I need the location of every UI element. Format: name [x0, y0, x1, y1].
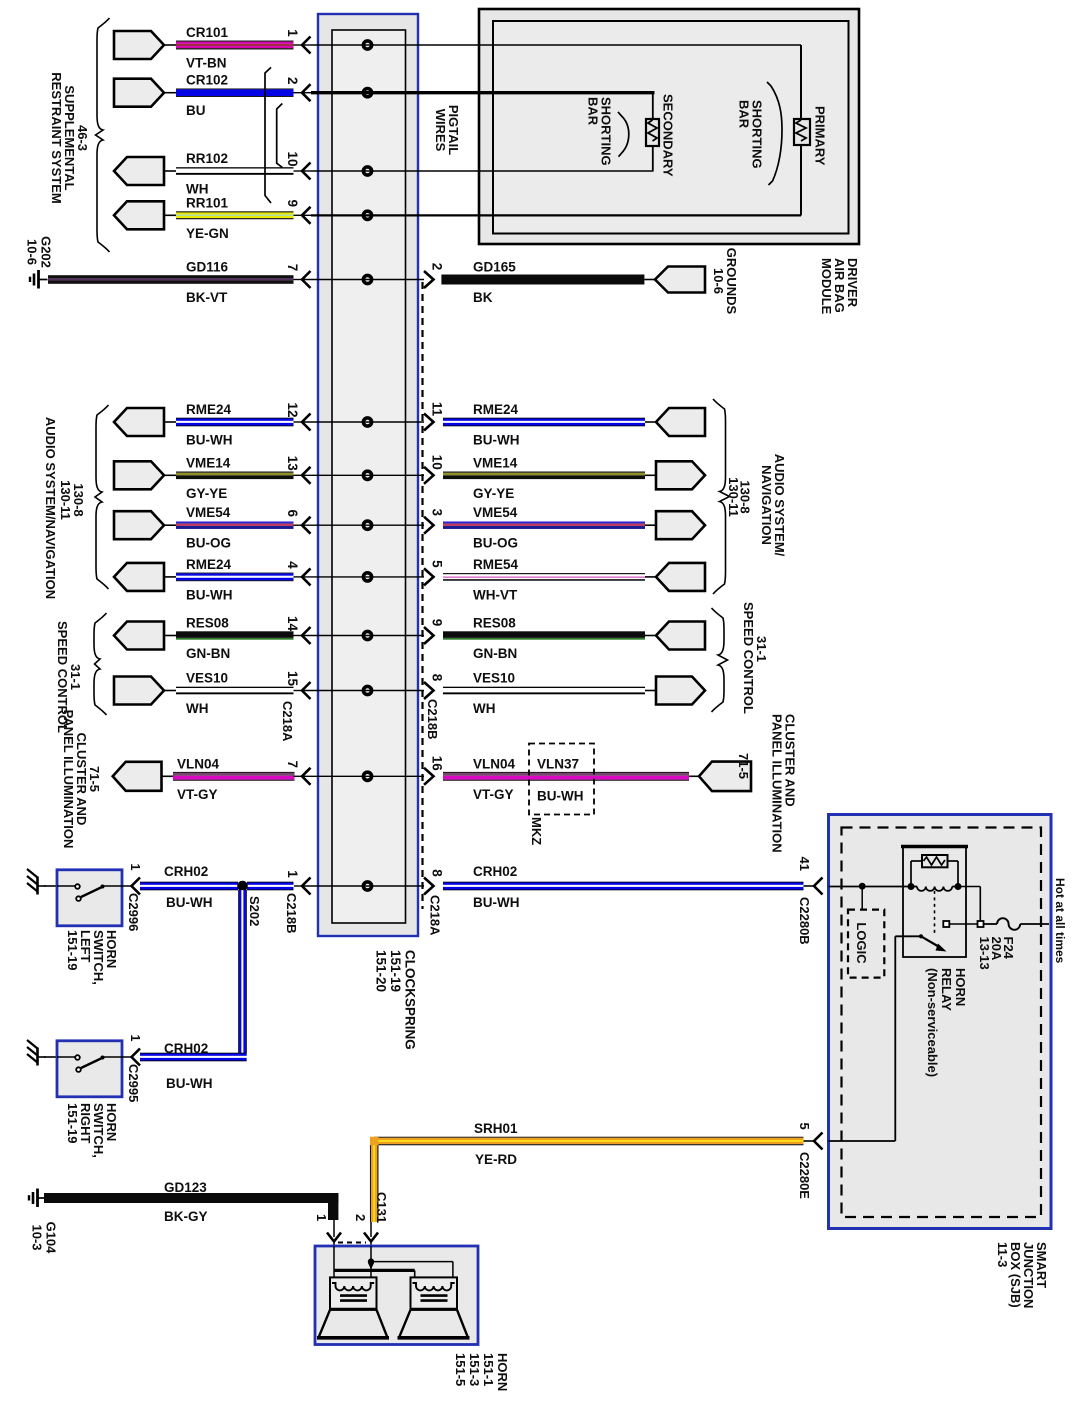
svg-text:C218B: C218B — [284, 893, 299, 933]
svg-text:6: 6 — [285, 509, 300, 517]
svg-text:GN-BN: GN-BN — [186, 646, 230, 661]
svg-text:CRH02: CRH02 — [164, 1041, 208, 1056]
svg-text:RME24: RME24 — [186, 557, 232, 572]
contact square left — [943, 921, 949, 927]
wire row VME54 pin 6 — [114, 505, 445, 551]
wire row CRH02 pin 1 — [285, 869, 445, 894]
svg-text:1: 1 — [314, 1214, 329, 1221]
VLN37 MKZ dashed box — [529, 744, 594, 815]
svg-text:7: 7 — [285, 264, 300, 272]
svg-text:GD165: GD165 — [473, 260, 516, 275]
primary squib loop wires — [311, 44, 801, 46]
chevron SJB pin 5 — [814, 1133, 823, 1150]
wire to LOGIC — [861, 887, 863, 910]
svg-text:C2995: C2995 — [126, 1064, 141, 1102]
svg-text:C218B: C218B — [425, 699, 440, 739]
secondary squib loop wires — [311, 91, 655, 94]
svg-text:BU-WH: BU-WH — [186, 433, 233, 448]
relay switch blade — [919, 934, 923, 938]
wire CRH02 from left switch — [140, 881, 238, 884]
svg-text:1: 1 — [128, 864, 142, 871]
primary shorting bar resistor — [794, 119, 810, 145]
C131 dashed boundary — [338, 1242, 366, 1244]
svg-text:SPEED CONTROL: SPEED CONTROL — [741, 602, 756, 714]
svg-text:BU: BU — [186, 103, 206, 118]
svg-text:WH: WH — [186, 701, 209, 716]
svg-text:2: 2 — [285, 77, 300, 85]
svg-text:41: 41 — [797, 857, 812, 871]
svg-text:CR101: CR101 — [186, 25, 229, 40]
svg-text:10: 10 — [430, 455, 445, 470]
wire row GD116 pin 7 — [48, 260, 445, 306]
stub at SJB pin 41 — [804, 885, 815, 887]
primary shorting bar brace — [767, 82, 782, 185]
svg-text:SECONDARY: SECONDARY — [661, 94, 676, 177]
wire row RR102 pin 10 — [114, 151, 372, 197]
svg-text:VT-GY: VT-GY — [473, 787, 514, 802]
wire row RME24 pin 12 — [114, 402, 445, 448]
svg-text:BU-WH: BU-WH — [473, 433, 520, 448]
connector C218B dashed boundary line — [421, 282, 423, 909]
driver air bag module inner box — [493, 21, 849, 234]
svg-text:RES08: RES08 — [186, 616, 229, 631]
svg-text:VME14: VME14 — [473, 455, 518, 470]
svg-text:130-8130-11: 130-8130-11 — [58, 480, 86, 520]
svg-text:G20210-6: G20210-6 — [25, 236, 54, 268]
svg-text:BU-WH: BU-WH — [166, 895, 213, 910]
svg-text:RME54: RME54 — [473, 557, 519, 572]
svg-text:VT-BN: VT-BN — [186, 56, 227, 71]
svg-text:2: 2 — [353, 1214, 368, 1221]
svg-text:C218A: C218A — [428, 895, 443, 936]
svg-text:SRH01: SRH01 — [474, 1121, 518, 1136]
junction to logic — [859, 883, 866, 890]
svg-text:9: 9 — [285, 200, 300, 208]
svg-text:VME54: VME54 — [473, 505, 518, 520]
svg-text:S202: S202 — [247, 896, 262, 926]
clockspring inner box — [332, 30, 406, 923]
horn bus bar — [334, 1269, 415, 1272]
svg-text:RME24: RME24 — [473, 402, 519, 417]
svg-text:VT-GY: VT-GY — [177, 787, 218, 802]
fuse F24 — [984, 923, 997, 925]
SJB dashed inner boundary — [842, 828, 1042, 1218]
SRH01 corner patch — [370, 1137, 379, 1146]
svg-text:BU-WH: BU-WH — [186, 587, 233, 602]
clockspring outer box — [318, 14, 418, 936]
secondary shorting bar resistor — [646, 119, 659, 146]
jumper to right horn — [371, 1261, 453, 1263]
SJB vertical wire to pin 5 — [894, 936, 896, 1141]
relay box thick top edge — [901, 845, 968, 849]
SJB wire from pin 41 to relay — [829, 886, 912, 888]
svg-text:AUDIO SYSTEM/NAVIGATION: AUDIO SYSTEM/NAVIGATION — [43, 417, 58, 599]
wire row RME24 pin 4 — [114, 557, 445, 603]
contact link wire — [949, 923, 977, 925]
svg-text:WH: WH — [473, 701, 496, 716]
svg-text:5: 5 — [430, 560, 445, 568]
svg-text:4: 4 — [285, 561, 300, 569]
wire GD123 — [44, 1193, 338, 1203]
SRH01 lead to pin 2 — [370, 1222, 372, 1237]
svg-text:PRIMARY: PRIMARY — [813, 106, 828, 166]
relay resistor — [922, 855, 948, 867]
smart junction box — [829, 815, 1052, 1229]
wire VME54 right segment — [443, 505, 705, 551]
svg-text:MKZ: MKZ — [529, 817, 544, 845]
svg-text:WH-VT: WH-VT — [473, 587, 518, 602]
relay actuation dashed line — [934, 891, 936, 933]
wire row VLN04 pin 7 — [113, 756, 445, 802]
svg-text:BU-WH: BU-WH — [473, 895, 520, 910]
wire row CR102 pin 2 — [114, 73, 372, 119]
wire SRH01 vertical — [370, 1145, 371, 1222]
horn switch right C2995 — [27, 1035, 142, 1158]
feed to contact — [958, 886, 980, 888]
svg-text:GD116: GD116 — [186, 260, 229, 275]
stub at SJB pin 5 — [804, 1140, 815, 1142]
wire row VME14 pin 13 — [114, 455, 445, 501]
resistor parallel stubs — [911, 860, 922, 862]
svg-text:BK-GY: BK-GY — [164, 1209, 208, 1224]
pigtail group bracket B — [277, 104, 283, 168]
audio system brace right — [713, 399, 730, 594]
LOGIC dashed box — [848, 910, 884, 978]
wire CRH02 from right switch — [140, 1052, 247, 1055]
wire CRH02 to SJB — [443, 881, 804, 884]
svg-text:BK-VT: BK-VT — [186, 290, 228, 305]
svg-text:VES10: VES10 — [186, 671, 228, 686]
relay coil — [917, 887, 952, 891]
horn pin 1 lead — [333, 1241, 335, 1269]
svg-text:12: 12 — [285, 402, 300, 417]
svg-text:GY-YE: GY-YE — [473, 486, 514, 501]
svg-text:CRH02: CRH02 — [164, 864, 208, 879]
wire VES10 right segment — [443, 671, 705, 717]
svg-text:130-8130-11: 130-8130-11 — [726, 477, 753, 517]
svg-text:71-5: 71-5 — [736, 753, 751, 779]
svg-text:VLN37: VLN37 — [537, 757, 579, 772]
svg-text:9: 9 — [430, 619, 445, 627]
wire VME14 right segment — [443, 455, 705, 501]
svg-text:1: 1 — [285, 29, 300, 37]
svg-text:GN-BN: GN-BN — [473, 646, 517, 661]
svg-text:GD123: GD123 — [164, 1180, 207, 1195]
svg-text:11: 11 — [430, 402, 445, 417]
ground G104 — [36, 1189, 39, 1208]
svg-text:7: 7 — [285, 761, 300, 769]
wire RME24 right segment — [443, 402, 705, 448]
svg-text:BK: BK — [473, 290, 493, 305]
audio system brace left — [95, 405, 109, 589]
wire GD165 right segment — [441, 260, 705, 306]
leads into left horn — [333, 1270, 335, 1284]
svg-text:16: 16 — [430, 756, 445, 772]
svg-text:15: 15 — [285, 671, 300, 687]
svg-text:YE-GN: YE-GN — [186, 226, 229, 241]
horn speaker right — [411, 1277, 458, 1309]
svg-text:1: 1 — [285, 870, 300, 878]
svg-text:13: 13 — [285, 456, 300, 472]
svg-text:Hot at all times: Hot at all times — [1053, 878, 1067, 964]
wire row CR101 pin 1 — [114, 25, 372, 71]
wire row RES08 pin 14 — [114, 616, 445, 662]
horn junction dot — [368, 1258, 374, 1264]
wire row RR101 pin 9 — [114, 195, 372, 241]
svg-text:RR101: RR101 — [186, 195, 229, 210]
svg-text:C218A: C218A — [280, 701, 295, 742]
svg-text:5: 5 — [797, 1123, 812, 1130]
svg-text:GY-YE: GY-YE — [186, 486, 227, 501]
svg-text:BU-OG: BU-OG — [186, 536, 231, 551]
wire GD123 vertical — [328, 1193, 338, 1220]
arrow into bus bar — [368, 1263, 374, 1270]
svg-text:C131: C131 — [374, 1192, 389, 1223]
wire RME54 right segment — [443, 557, 705, 603]
svg-text:VLN04: VLN04 — [473, 756, 516, 771]
svg-text:VME54: VME54 — [186, 505, 231, 520]
supplemental restraint system brace — [96, 18, 110, 252]
svg-text:8: 8 — [430, 869, 445, 877]
ground G202 — [37, 270, 40, 289]
svg-text:G10410-3: G10410-3 — [30, 1222, 59, 1255]
horn speaker left — [330, 1277, 377, 1309]
stub to clockspring pin 1 — [294, 885, 302, 887]
svg-text:2: 2 — [430, 263, 445, 271]
SJB wire to pin 5 — [829, 1140, 896, 1142]
svg-text:1: 1 — [128, 1035, 142, 1042]
svg-text:RME24: RME24 — [186, 402, 232, 417]
svg-text:RR102: RR102 — [186, 151, 228, 166]
wire row VES10 pin 15 — [114, 671, 445, 717]
svg-text:DRIVERAIR BAGMODULE: DRIVERAIR BAGMODULE — [819, 258, 860, 315]
svg-text:C2280B: C2280B — [797, 897, 812, 945]
chevron SJB pin 41 — [814, 878, 823, 895]
svg-text:CRH02: CRH02 — [473, 864, 517, 879]
driver air bag module outer box — [479, 9, 859, 244]
horn box — [315, 1246, 478, 1345]
svg-text:CR102: CR102 — [186, 73, 228, 88]
svg-text:BU-WH: BU-WH — [166, 1076, 213, 1091]
svg-text:VME14: VME14 — [186, 455, 231, 470]
speed control brace left — [94, 613, 107, 715]
svg-text:8: 8 — [430, 674, 445, 682]
svg-text:14: 14 — [285, 616, 300, 632]
svg-text:VES10: VES10 — [473, 671, 515, 686]
speed control brace right — [712, 608, 728, 712]
svg-text:WH: WH — [186, 182, 209, 197]
blade wire — [895, 935, 921, 937]
svg-text:10: 10 — [285, 151, 300, 166]
svg-text:VLN04: VLN04 — [177, 756, 220, 771]
svg-text:BU-OG: BU-OG — [473, 536, 518, 551]
svg-text:PIGTAILWIRES: PIGTAILWIRES — [433, 105, 461, 155]
horn switch left C2996 — [27, 864, 142, 985]
relay coil junction dots — [908, 883, 915, 890]
svg-text:BU-WH: BU-WH — [537, 789, 584, 804]
svg-text:LOGIC: LOGIC — [854, 922, 869, 964]
horn relay box — [903, 846, 966, 957]
svg-text:RES08: RES08 — [473, 616, 516, 631]
svg-text:3: 3 — [430, 508, 445, 516]
coil lead stubs — [911, 886, 917, 888]
wire RES08 right segment — [443, 616, 705, 662]
wire SRH01 horizontal — [374, 1137, 804, 1138]
wire VLN04 right segment — [443, 756, 751, 802]
connector C131 pin chevrons — [327, 1233, 341, 1242]
svg-text:YE-RD: YE-RD — [475, 1152, 517, 1167]
svg-text:HORN151-1151-3151-5: HORN151-1151-3151-5 — [453, 1353, 510, 1391]
splice S202 — [237, 881, 248, 892]
wire CRH02 vertical drop — [237, 890, 240, 1053]
horn pin 2 lead — [370, 1241, 372, 1260]
svg-text:AUDIO SYSTEM/NAVIGATION: AUDIO SYSTEM/NAVIGATION — [759, 454, 787, 557]
svg-text:C2280E: C2280E — [797, 1152, 812, 1199]
svg-text:C2996: C2996 — [126, 893, 141, 931]
contact square right — [978, 921, 984, 927]
pigtail group bracket A — [265, 67, 271, 203]
secondary shorting bar brace — [618, 112, 629, 157]
pin leads inside horn box — [333, 1246, 335, 1270]
